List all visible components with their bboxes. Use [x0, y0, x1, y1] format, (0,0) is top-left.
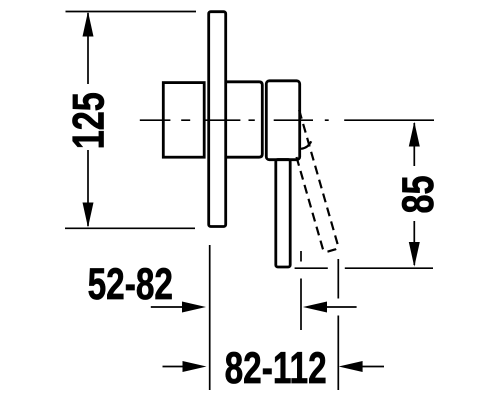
body (concealed valve box)	[163, 83, 204, 158]
wall plate	[209, 12, 226, 227]
svg-text:125: 125	[64, 92, 113, 149]
dashed handle lever (alternate position)	[284, 109, 339, 252]
dimension line 125	[87, 13, 89, 226]
svg-text:52-82: 52-82	[88, 260, 173, 310]
dimension line 52-82 left	[151, 306, 183, 308]
dimension line 82-112 left	[163, 366, 184, 368]
svg-text:82-112: 82-112	[225, 343, 327, 393]
sleeve	[227, 82, 262, 157]
dimension line 82-112 right	[362, 366, 384, 368]
arrowhead down (125)	[83, 203, 94, 228]
dimension line 85	[413, 123, 415, 265]
bottom reference line (85)	[295, 267, 433, 269]
arrowhead left (82-112)	[339, 361, 363, 372]
svg-text:85: 85	[394, 175, 443, 213]
arrowhead down (85)	[409, 242, 420, 267]
top extension line (125)	[66, 11, 197, 13]
arrowhead left (52-82)	[303, 302, 327, 313]
dimension line 52-82 right	[326, 306, 357, 308]
arrowhead up (125)	[83, 12, 94, 37]
cap	[266, 81, 299, 160]
arrowhead up (85)	[409, 122, 420, 147]
bottom extension line (125)	[65, 227, 195, 229]
extension line at wall face	[209, 245, 211, 390]
extension line at cap face	[300, 251, 302, 330]
solid arc at handle pivot	[301, 141, 311, 149]
arrowhead right (52-82)	[182, 302, 206, 313]
handle lever (solid, down position)	[276, 160, 290, 268]
extension line at dashed handle tip	[337, 259, 339, 390]
centerline	[140, 119, 434, 121]
arrowhead right (82-112)	[183, 361, 207, 372]
